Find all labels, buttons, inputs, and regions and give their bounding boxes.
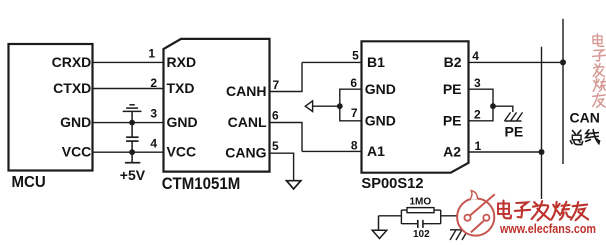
arrow (open, pointing left) (305, 101, 312, 112)
CTM1051M box (chamfer top-left) (164, 39, 270, 172)
pin numbers 1-4 (148, 46, 157, 150)
ground triangle (CANG) (287, 181, 301, 189)
CAN bus line left (541, 47, 543, 199)
chip label CTM1051M (162, 174, 241, 193)
chip label SP00S12 (361, 176, 423, 192)
pin numbers 4,3,2,1 right of SP00S12 (472, 49, 481, 153)
svg-text:CANL: CANL (228, 114, 267, 130)
svg-text:VCC: VCC (167, 144, 197, 160)
svg-text:A1: A1 (367, 143, 385, 159)
svg-text:1MO: 1MO (410, 196, 432, 207)
svg-text:CRXD: CRXD (52, 54, 92, 70)
svg-text:8: 8 (351, 138, 358, 152)
CJK 总线 (bus) hand-drawn (570, 130, 599, 145)
svg-text:1: 1 (475, 139, 482, 153)
svg-text:GND: GND (365, 112, 396, 128)
电 (498, 204, 509, 215)
svg-text:B1: B1 (367, 54, 385, 70)
PE chassis symbol (505, 112, 523, 121)
烧 (594, 81, 596, 84)
svg-text:A2: A2 (443, 143, 461, 159)
wire GND-GND (93, 122, 164, 124)
SP00S12 left pin labels (365, 54, 396, 159)
svg-text:102: 102 (413, 229, 430, 240)
svg-text:GND: GND (365, 81, 396, 97)
wire CTXD-TXD (93, 88, 164, 90)
svg-text:3: 3 (150, 107, 157, 121)
CTM1051M left pin labels (167, 54, 198, 160)
svg-text:1: 1 (148, 46, 155, 60)
chassis earth symbol bottom (450, 230, 468, 240)
wire to chassis earth (441, 216, 462, 230)
svg-text:5: 5 (272, 139, 279, 153)
RC network: ground triangle left (372, 216, 387, 239)
svg-text:7: 7 (351, 106, 358, 120)
PE bracket pins 3,2 (469, 89, 494, 121)
wire CANH to B1 riser (270, 62, 303, 91)
svg-text:2: 2 (150, 76, 157, 90)
junction dot B2/bus (560, 59, 566, 65)
svg-text:4: 4 (472, 49, 479, 63)
svg-text:CTM1051M: CTM1051M (162, 174, 241, 193)
wire VCC-VCC (93, 151, 164, 153)
svg-text:GND: GND (167, 114, 198, 130)
友 (573, 205, 588, 207)
svg-text:6: 6 (272, 108, 279, 122)
wire A1 (302, 150, 362, 152)
svg-text:PE: PE (505, 124, 524, 140)
svg-text:RXD: RXD (167, 54, 197, 70)
watermark: red elecfans logo (457, 191, 495, 236)
电 (593, 36, 602, 44)
svg-text:CTXD: CTXD (53, 80, 91, 96)
子 (594, 50, 604, 53)
pin numbers 5,6,7,8 left of SP00S12 (350, 48, 359, 152)
svg-text:TXD: TXD (167, 80, 195, 96)
node RC right rail (440, 210, 442, 224)
友 (593, 95, 606, 96)
svg-text:4: 4 (150, 137, 157, 151)
svg-text:PE: PE (443, 81, 462, 97)
svg-text:CAN: CAN (570, 110, 600, 126)
junction dot A2/bus (539, 149, 545, 155)
svg-text:6: 6 (350, 76, 357, 90)
svg-text:3: 3 (474, 76, 481, 90)
junction dot VCC wire (129, 149, 135, 155)
发 (595, 64, 597, 66)
junction dot GND wire (129, 120, 135, 126)
watermark: red CJK 电子发烧友 (498, 201, 588, 221)
子 (516, 202, 527, 207)
ground symbol above GND wire (123, 105, 142, 123)
svg-text:GND: GND (60, 114, 91, 130)
pin labels MCU (52, 54, 92, 160)
node RC left rail (400, 210, 402, 224)
SP00S12 right pin labels (443, 54, 462, 159)
MCU box (9, 44, 93, 171)
chip label MCU (12, 174, 46, 192)
svg-text:+5V: +5V (120, 167, 146, 183)
svg-text:2: 2 (474, 108, 481, 122)
svg-text:5: 5 (352, 48, 359, 62)
wire bracket to PE symbol (493, 106, 513, 112)
junction dot bracket PE (490, 103, 496, 109)
SP00S12 box (chamfer bottom-right) (362, 41, 469, 172)
wire CANL to A1 riser (270, 123, 303, 152)
GND bracket pins 6,7 (340, 89, 362, 121)
svg-text:7: 7 (273, 78, 280, 92)
svg-text:CANH: CANH (226, 83, 266, 99)
capacitor 102 (401, 223, 417, 225)
resistor R 1MO (401, 209, 407, 211)
wire B2 to right bus (469, 61, 564, 63)
junction dot bracket GND (337, 103, 343, 109)
wire CANG to ground (270, 153, 294, 181)
wire CRXD-RXD (93, 61, 164, 63)
svg-text:www.elecfans.com: www.elecfans.com (499, 222, 596, 236)
svg-text:PE: PE (443, 112, 462, 128)
watermark: faint vertical 电子发烧友 along right edge (593, 34, 606, 107)
capacitor C (decoupling between GND and VCC wires) (126, 123, 139, 153)
svg-text:SP00S12: SP00S12 (361, 176, 423, 192)
wire ground to RC node (379, 215, 402, 217)
svg-text:CANG: CANG (225, 145, 266, 161)
svg-text:B2: B2 (444, 54, 462, 70)
svg-text:VCC: VCC (62, 144, 92, 160)
发 (534, 202, 537, 205)
CTM1051M right pin labels (225, 83, 267, 161)
wire from bracket to arrow (313, 105, 340, 107)
CAN bus line right (562, 19, 564, 164)
烧 (553, 205, 555, 208)
wire A2 to left bus (469, 151, 542, 153)
+5V power bar (125, 152, 140, 163)
pin numbers 7,6,5 right of CTM (272, 78, 280, 153)
wire B1 (302, 61, 362, 63)
svg-text:MCU: MCU (12, 174, 46, 192)
